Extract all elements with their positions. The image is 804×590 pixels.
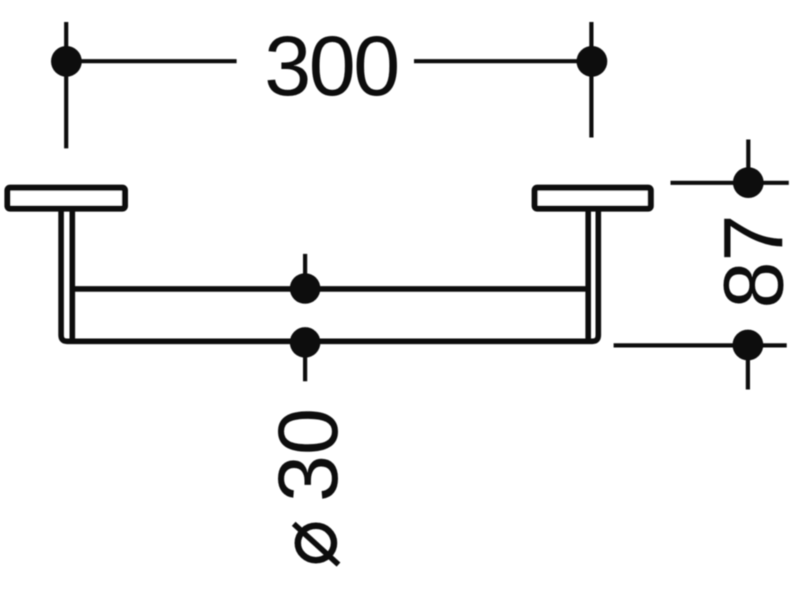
diameter symbol O <box>298 526 334 560</box>
diameter: bottom dot tail <box>303 342 307 381</box>
svg-text:87: 87 <box>707 215 801 309</box>
dimension 300: right dot <box>577 46 608 77</box>
dimension 300: left dot <box>51 46 82 77</box>
left wall plate <box>7 188 125 209</box>
dimension 87: bottom extension line <box>746 345 750 390</box>
svg-text:30: 30 <box>261 408 355 502</box>
dimension 87: bottom dot <box>733 330 764 361</box>
diameter: top dot <box>290 273 321 304</box>
right post inner line <box>585 209 591 339</box>
left post inner line <box>70 209 76 339</box>
dimension 300: left extension line <box>64 22 68 148</box>
dimension 300: left leader line <box>66 59 236 63</box>
dimension 87: top extension line <box>746 140 750 184</box>
dimension 87: bottom leader line <box>614 343 787 347</box>
right wall plate <box>535 188 651 209</box>
bar outer contour (posts outer edges + bottom line) <box>61 209 598 341</box>
dimension 300: right leader line <box>414 59 592 63</box>
svg-text:300: 300 <box>264 19 398 113</box>
diameter symbol slash <box>294 524 339 565</box>
dimension 87: top dot <box>733 167 764 198</box>
diameter: bottom dot <box>290 327 321 358</box>
diameter: top dot tail <box>303 254 307 289</box>
dimension 300: right extension line <box>589 22 593 138</box>
dimension 87: top leader line <box>671 181 789 185</box>
bar top line <box>72 286 588 292</box>
